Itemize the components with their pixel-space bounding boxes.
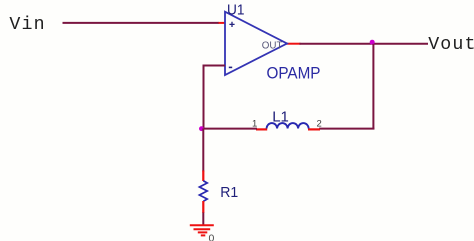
inductor L1 body	[267, 123, 309, 128]
svg-text:Vout: Vout	[428, 35, 474, 55]
wire feedback row right segment (to L1 pin 2)	[319, 128, 374, 130]
wire feedback node down to R1	[202, 128, 204, 171]
junction at feedback node	[199, 126, 204, 131]
svg-text:2: 2	[317, 119, 322, 130]
U1 plus marker	[229, 22, 234, 27]
svg-text:R1: R1	[220, 184, 238, 201]
wire R1 to ground symbol	[202, 213, 204, 225]
svg-text:OPAMP: OPAMP	[267, 64, 321, 82]
resistor R1 pin 2 stub	[202, 201, 204, 213]
ground symbol 0	[190, 225, 214, 235]
resistor R1 body (zigzag)	[199, 181, 207, 202]
resistor R1 pin 1 stub	[202, 171, 204, 182]
svg-text:OUT: OUT	[262, 41, 283, 52]
U1 minus marker	[229, 66, 232, 68]
wire U1 output to Vout node	[300, 43, 429, 45]
svg-text:L1: L1	[272, 109, 289, 126]
inductor L1 pin 2 stub	[308, 128, 320, 130]
wire Vin to U1 noninverting input	[63, 22, 220, 24]
op-amp U1 pin + (input stub)	[219, 22, 226, 24]
wire U1 inverting input down to feedback node	[204, 66, 226, 130]
junction at output node	[370, 40, 375, 45]
inductor L1 pin 1 stub	[256, 128, 267, 130]
svg-text:U1: U1	[227, 1, 245, 18]
svg-text:Vin: Vin	[9, 15, 45, 35]
wire feedback row left segment (L1 pin 1 to node)	[203, 128, 258, 130]
wire output node down to feedback row	[372, 44, 374, 130]
svg-text:0: 0	[209, 233, 215, 241]
op-amp U1 body	[225, 12, 287, 75]
op-amp U1 pin - (input stub)	[219, 65, 226, 67]
op-amp U1 output pin OUT stub	[286, 43, 301, 45]
